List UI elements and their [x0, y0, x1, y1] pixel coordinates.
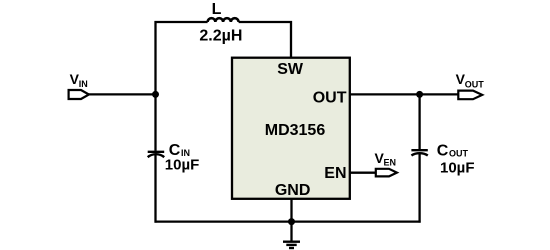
svg-text:10µF: 10µF: [440, 159, 475, 176]
svg-text:EN: EN: [384, 157, 397, 167]
svg-text:GND: GND: [275, 182, 311, 199]
svg-text:OUT: OUT: [465, 80, 485, 90]
svg-text:IN: IN: [79, 79, 88, 89]
svg-text:L: L: [212, 1, 222, 18]
svg-text:C: C: [437, 143, 449, 160]
svg-text:OUT: OUT: [313, 90, 347, 107]
svg-text:EN: EN: [324, 165, 346, 182]
svg-text:SW: SW: [277, 61, 304, 78]
svg-text:2.2µH: 2.2µH: [199, 27, 242, 44]
svg-text:MD3156: MD3156: [265, 122, 326, 139]
svg-text:OUT: OUT: [449, 149, 469, 159]
svg-text:10µF: 10µF: [165, 156, 200, 173]
